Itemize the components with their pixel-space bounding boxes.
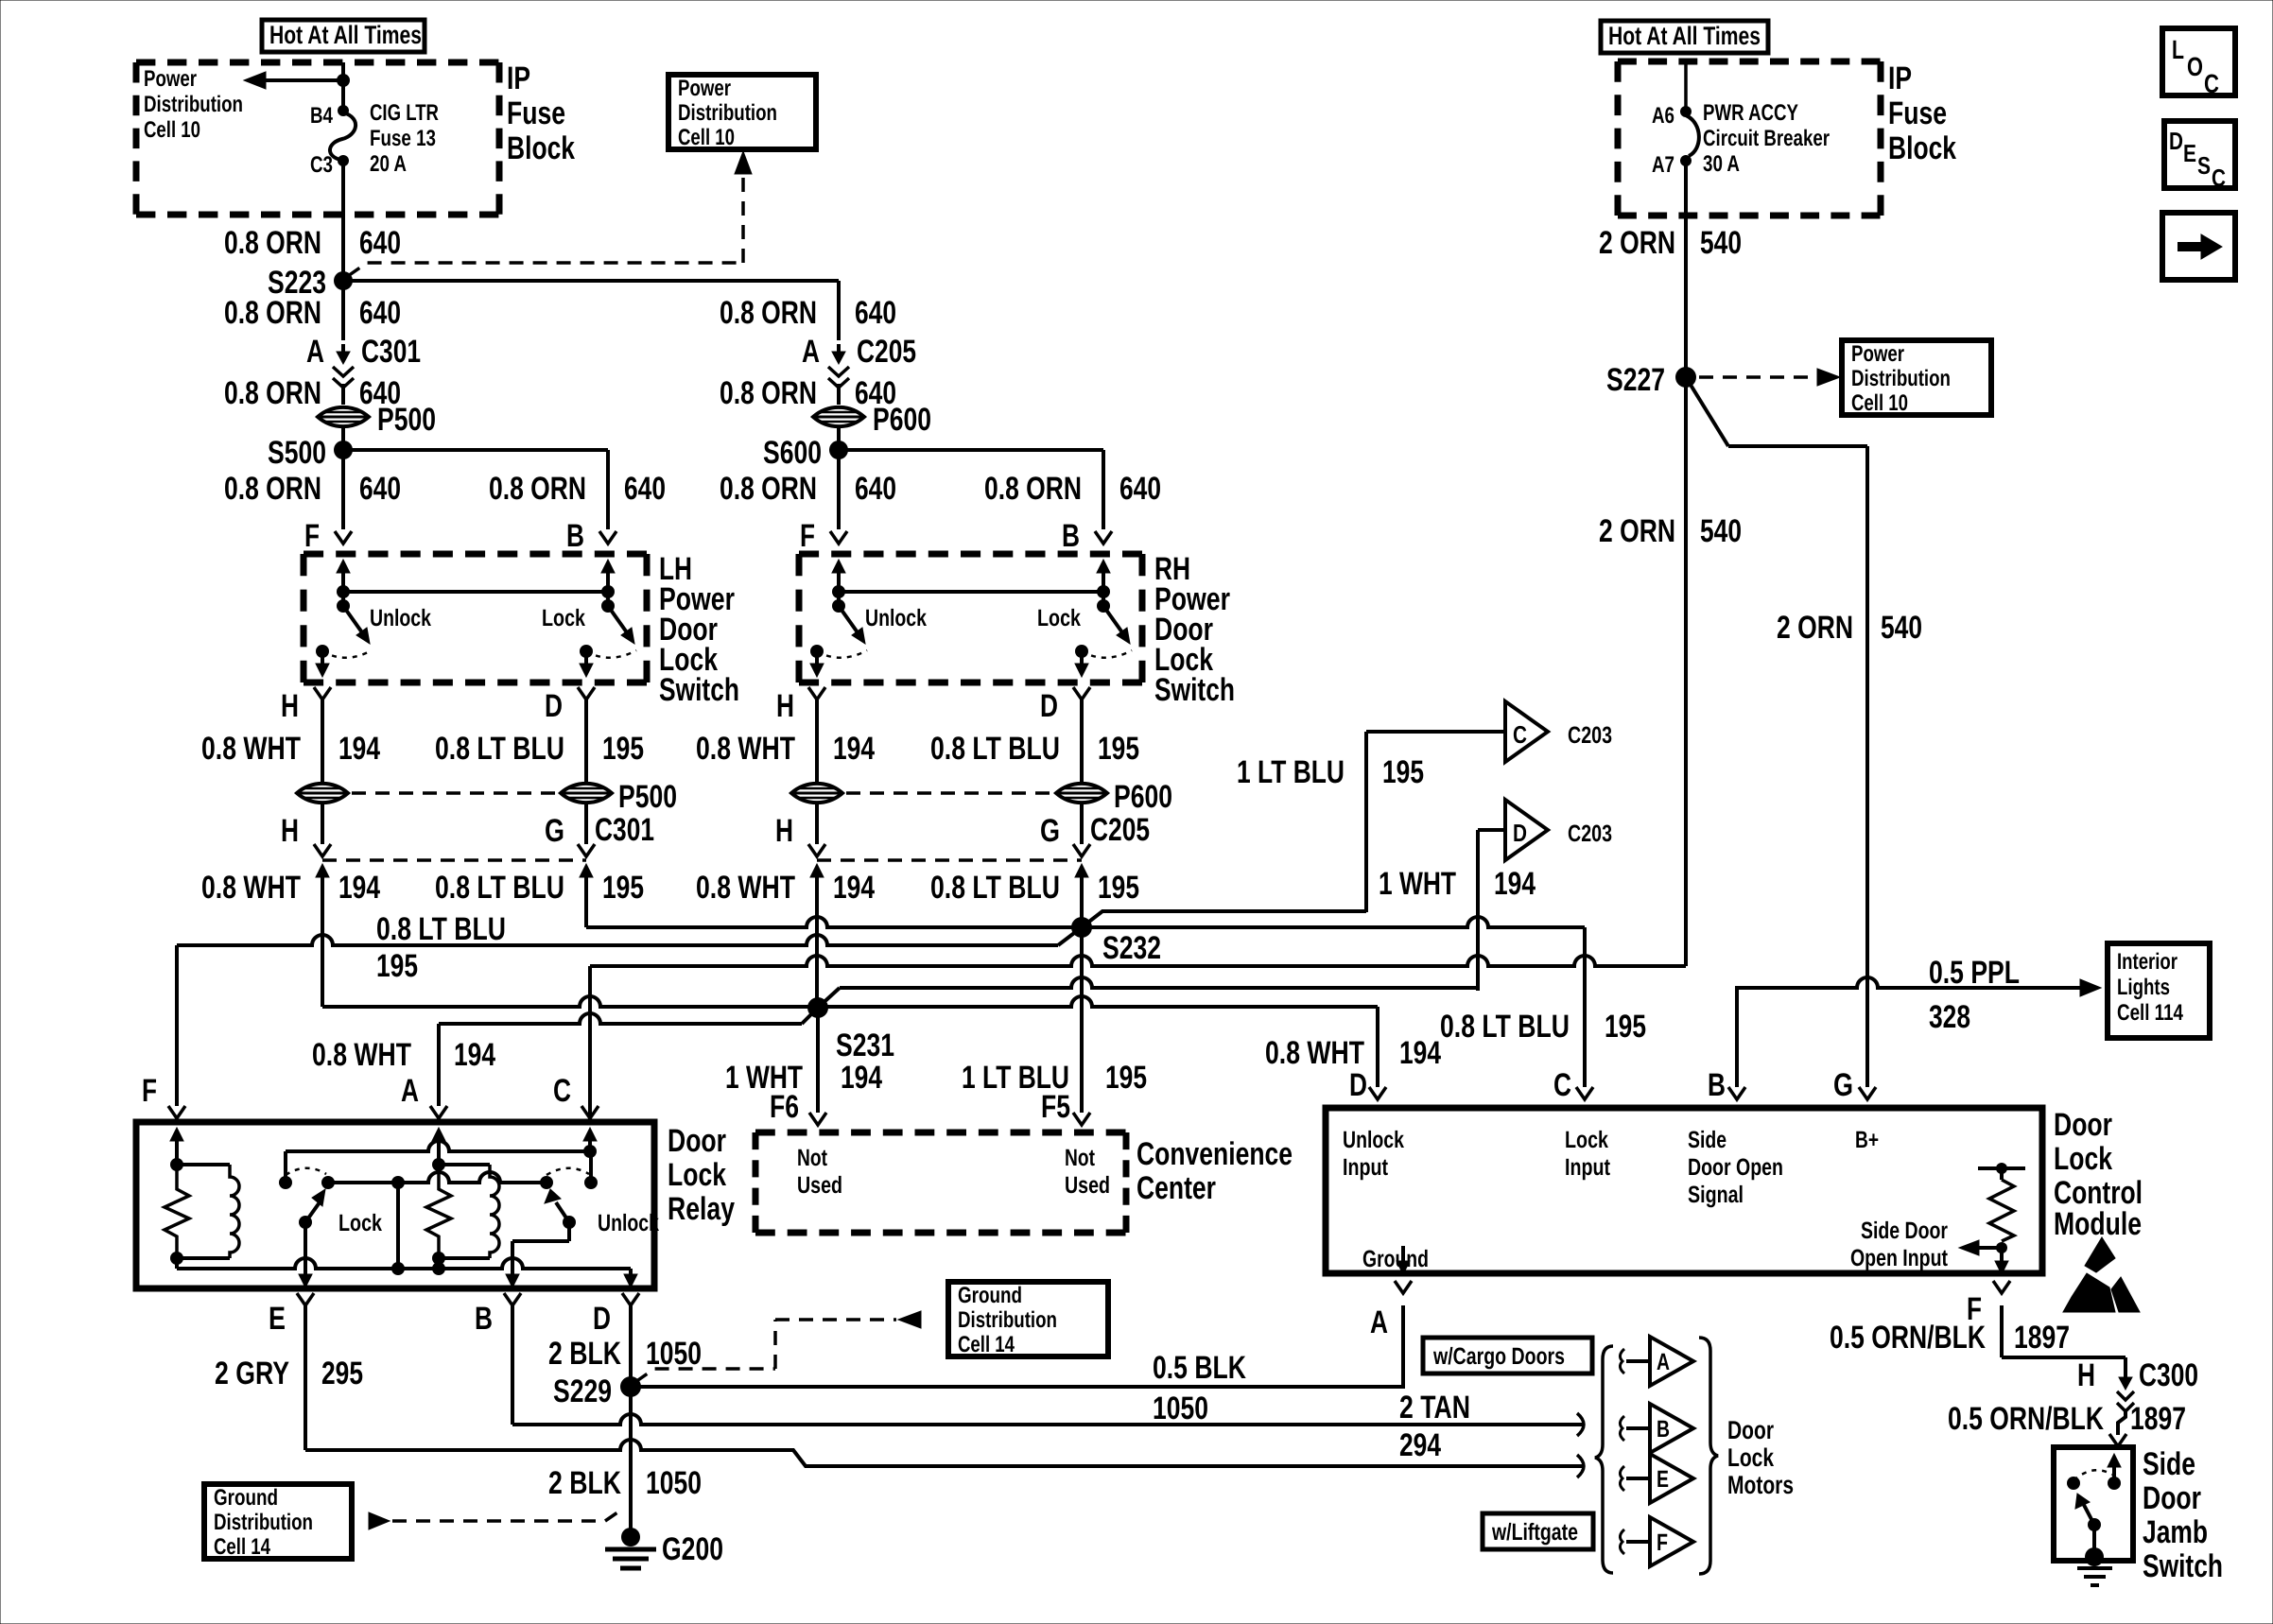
wire: C205 to P600 (837, 384, 841, 405)
wire: S232 down to F5 (1080, 927, 1084, 1113)
wire: S223 branch to C205 (horizontal) (343, 279, 839, 283)
svg-text:Door: Door (1727, 1416, 1774, 1444)
wire: 1 WHT to C203 D (1478, 828, 1505, 832)
LH lock switch blade (608, 606, 629, 635)
svg-text:194: 194 (454, 1037, 495, 1073)
svg-text:Relay: Relay (668, 1191, 735, 1227)
relay lock pivot (299, 1216, 312, 1229)
svg-text:Door: Door (668, 1123, 726, 1159)
svg-text:Lock: Lock (1565, 1127, 1608, 1153)
svg-text:540: 540 (1700, 513, 1742, 549)
svg-text:194: 194 (833, 731, 875, 767)
svg-text:640: 640 (855, 295, 896, 331)
wire: S223 down to C301 (341, 281, 345, 340)
wire: LT BLU 195 bus LH D to S232 to module C (586, 917, 1585, 927)
svg-text:Lock: Lock (668, 1157, 726, 1193)
relay E pin wire from lock pivot (304, 1222, 307, 1278)
pin D chevron out of LH switch (578, 687, 595, 700)
RH switch: B pin internal arrow (1097, 560, 1110, 573)
connector P500 pass-through (LH D wire) (561, 784, 612, 803)
svg-text:Module: Module (2054, 1206, 2142, 1242)
relay resistor 1 (165, 1165, 189, 1258)
svg-text:540: 540 (1881, 610, 1922, 646)
Side Door Jamb Switch box (2054, 1447, 2133, 1561)
door lock motor A lead curl (1620, 1349, 1624, 1373)
wire end curl (294) (1577, 1455, 1584, 1477)
svg-text:Cell 114: Cell 114 (2117, 1000, 2184, 1026)
svg-text:C203: C203 (1568, 722, 1612, 749)
svg-text:194: 194 (833, 870, 875, 906)
wire: RH H down to S231 (815, 885, 819, 1008)
svg-text:Not: Not (1065, 1145, 1096, 1171)
svg-text:Lock: Lock (1037, 605, 1081, 631)
relay F leg upper (175, 1151, 179, 1165)
svg-text:1 WHT: 1 WHT (1379, 866, 1456, 902)
svg-text:Interior: Interior (2117, 949, 2178, 975)
svg-text:Hot At All Times: Hot At All Times (269, 21, 422, 49)
buffer C203 pin C triangle (1505, 701, 1548, 762)
wire: relay B pin down and right to motors (511, 1305, 514, 1425)
connector P600 pass-through (RH H wire) (791, 784, 842, 803)
svg-text:195: 195 (602, 731, 644, 767)
svg-text:A: A (802, 334, 820, 370)
arrow from Ground Distribution (left) (369, 1512, 390, 1529)
LH switch bus node B (601, 585, 615, 598)
legend box DESC (2164, 121, 2235, 188)
pin B4 of fuse (338, 105, 349, 116)
svg-text:B: B (1708, 1067, 1726, 1103)
wire: C301 to P500 (341, 384, 345, 405)
wire: RH H below P600 (815, 803, 819, 844)
wire: LH D to bus corner (584, 885, 588, 927)
svg-text:Power: Power (144, 66, 197, 92)
relay coil 1 (177, 1163, 230, 1166)
relay lock switch dashed arc (286, 1168, 326, 1175)
pin D chevron (module) (1369, 1087, 1386, 1099)
svg-text:2 ORN: 2 ORN (1777, 610, 1853, 646)
node: fuse feed junction (337, 74, 350, 87)
door lock motor A triangle (1650, 1337, 1693, 1386)
svg-text:1897: 1897 (2130, 1401, 2186, 1437)
svg-text:F: F (1657, 1529, 1668, 1556)
pin C3 of fuse (338, 155, 349, 166)
svg-text:F: F (142, 1073, 157, 1109)
svg-text:Switch: Switch (659, 672, 739, 708)
svg-text:F5: F5 (1041, 1089, 1070, 1125)
relay internal ground bus (175, 1258, 179, 1269)
wire: LH D pin down to P500 (584, 700, 588, 783)
wire: WHT 194 bus LH H to S231 to module D (322, 996, 1378, 1007)
relay resistor 2 (426, 1165, 451, 1258)
svg-text:0.8 LT BLU: 0.8 LT BLU (930, 731, 1060, 767)
svg-text:Power: Power (1851, 341, 1904, 367)
svg-text:Motors: Motors (1727, 1471, 1794, 1499)
RH lock switch blade (1103, 606, 1124, 635)
svg-text:S227: S227 (1606, 362, 1665, 398)
door lock motor F triangle (1650, 1517, 1693, 1566)
svg-text:2 ORN: 2 ORN (1599, 513, 1675, 549)
RH lock contact arrow down (1080, 651, 1084, 664)
relay unlock left contact (540, 1176, 553, 1189)
svg-text:G: G (1040, 813, 1060, 849)
svg-text:0.8 ORN: 0.8 ORN (224, 225, 321, 261)
svg-text:F6: F6 (770, 1089, 799, 1125)
svg-text:1050: 1050 (1153, 1391, 1208, 1426)
node S229 (620, 1376, 641, 1397)
svg-text:Ground: Ground (958, 1283, 1022, 1308)
svg-text:0.8 LT BLU: 0.8 LT BLU (930, 870, 1060, 906)
svg-text:1 LT BLU: 1 LT BLU (1237, 754, 1345, 790)
LH unlock switch blade (343, 606, 364, 635)
wire: P500 to S500 (341, 428, 345, 529)
connector P500 pass-through (power feed) (318, 407, 369, 426)
svg-text:Open Input: Open Input (1850, 1245, 1949, 1271)
RH lock switch contact (1075, 645, 1088, 658)
connector C300 in-line symbol (2119, 1377, 2132, 1390)
module internal resistor (side door open input) (1978, 1166, 2025, 1170)
svg-text:Distribution: Distribution (1851, 366, 1951, 391)
svg-text:Unlock: Unlock (865, 605, 927, 631)
svg-text:F: F (800, 518, 815, 554)
door lock motor E lead (1626, 1477, 1650, 1480)
pin D chevron out of RH switch (1073, 687, 1090, 700)
svg-text:A: A (1657, 1349, 1670, 1375)
relay coil1 top node (170, 1158, 183, 1171)
wire: module C riser down (1583, 927, 1587, 1087)
RH switch bus node B (1097, 585, 1110, 598)
wire: 2 ORN branch down to module G pin (1865, 446, 1869, 1087)
wire: RH D below P600 (1080, 803, 1084, 844)
dashed connector tie P600 (846, 791, 1052, 795)
svg-text:Lock: Lock (338, 1210, 382, 1236)
dashed wire: S227 to Power Distribution Cell 10 (1699, 375, 1815, 379)
svg-text:G200: G200 (662, 1531, 723, 1567)
svg-text:C301: C301 (361, 334, 421, 370)
pin G chevron (module) (1859, 1087, 1876, 1099)
relay A internal arrow (432, 1128, 445, 1141)
Convenience Center dashed box (755, 1130, 1126, 1136)
pin C chevron into relay (581, 1106, 599, 1118)
svg-text:P600: P600 (873, 402, 931, 438)
arrow into Power Distribution box (right) (1817, 369, 1840, 386)
relay coil 2 (439, 1163, 490, 1166)
wire: module B riser and 0.5 PPL to interior lights (1737, 977, 2085, 1087)
dashed wire: S229 to Ground Distribution Cell 14 (right) (635, 1369, 775, 1382)
LH lock switch contact (580, 645, 593, 658)
svg-text:P500: P500 (377, 402, 436, 438)
svg-text:1897: 1897 (2014, 1320, 2070, 1356)
svg-text:C300: C300 (2139, 1357, 2198, 1393)
svg-text:Unlock: Unlock (598, 1210, 659, 1236)
svg-text:IP: IP (507, 60, 530, 96)
svg-text:S: S (2197, 151, 2211, 180)
svg-text:S600: S600 (763, 435, 822, 471)
connector C301 chevron H (314, 844, 331, 856)
RH unlock switch contact (810, 645, 824, 658)
wire end curl (2 TAN) (1577, 1413, 1584, 1436)
solid box: Power Distribution Cell 10 (right) (1842, 340, 1991, 415)
RH Power Door Lock Switch dashed box (799, 551, 1142, 558)
svg-text:0.8 ORN: 0.8 ORN (720, 471, 817, 507)
svg-text:Switch: Switch (1154, 672, 1235, 708)
relay B pin dogleg from unlock pivot (567, 1222, 571, 1241)
LH unlock contact arrow down (321, 651, 324, 664)
svg-text:Switch: Switch (2143, 1548, 2223, 1584)
legend box LOC (2162, 28, 2235, 95)
solid box: Interior Lights Cell 114 (2108, 943, 2210, 1038)
svg-text:Fuse: Fuse (1888, 95, 1947, 131)
wire: 2 ORN relay feed horizontal (590, 956, 1686, 966)
svg-text:0.8 ORN: 0.8 ORN (489, 471, 586, 507)
svg-text:30 A: 30 A (1703, 151, 1740, 177)
svg-text:0.5 ORN/BLK: 0.5 ORN/BLK (1830, 1320, 1986, 1356)
svg-text:640: 640 (624, 471, 666, 507)
dashed wire: Ground Distribution to G200 wire (392, 1519, 605, 1523)
svg-text:C: C (2212, 164, 2226, 192)
Door Lock Relay box (136, 1122, 654, 1288)
relay coil2 bottom node (432, 1252, 445, 1265)
Door Lock Control Module box (1326, 1108, 2042, 1273)
svg-text:0.8 WHT: 0.8 WHT (1265, 1035, 1364, 1071)
svg-text:195: 195 (1382, 754, 1424, 790)
pin F chevron below module (1993, 1281, 2010, 1293)
RH unlock switch dashed arc (817, 650, 867, 658)
door lock motor B lead curl (1620, 1416, 1624, 1441)
wire: S600 branch to RH switch B pin (839, 448, 1103, 452)
pin F chevron into relay (168, 1106, 185, 1118)
svg-text:640: 640 (1119, 471, 1161, 507)
svg-text:CIG LTR: CIG LTR (370, 100, 439, 126)
LH unlock switch contact (316, 645, 329, 658)
svg-text:Used: Used (1065, 1172, 1110, 1199)
svg-text:S231: S231 (836, 1028, 894, 1063)
relay lock left contact (279, 1176, 292, 1189)
svg-text:D: D (1513, 819, 1527, 847)
connector P600 pass-through (power feed) (813, 407, 864, 426)
svg-text:C205: C205 (1090, 812, 1150, 848)
relay unlock switch dashed arc (547, 1168, 589, 1175)
svg-text:B: B (1657, 1416, 1670, 1443)
svg-text:G: G (1833, 1067, 1853, 1103)
pin B chevron into RH switch (1095, 531, 1112, 544)
svg-text:328: 328 (1929, 999, 1970, 1035)
svg-text:0.8 ORN: 0.8 ORN (224, 471, 321, 507)
svg-text:2 TAN: 2 TAN (1399, 1390, 1470, 1425)
svg-text:194: 194 (1399, 1035, 1441, 1071)
svg-text:Side: Side (1688, 1127, 1726, 1153)
svg-text:H: H (776, 688, 794, 724)
C301 G male arrow (580, 864, 593, 877)
svg-text:Hot At All Times: Hot At All Times (1608, 22, 1761, 50)
relay unlock riser (589, 1151, 593, 1183)
pin B chevron below relay (504, 1293, 521, 1305)
svg-text:w/Cargo Doors: w/Cargo Doors (1432, 1343, 1565, 1370)
C205 H male arrow (810, 864, 824, 877)
wire: LT BLU 195 bus S232 to C203 (upper) (1082, 911, 1366, 927)
buffer C203 pin D triangle (1505, 800, 1548, 860)
jamb switch ground dot (2085, 1547, 2104, 1566)
pin B chevron into LH switch (599, 531, 616, 544)
door lock motor F lead curl (1620, 1529, 1624, 1554)
LH switch internal bus F-B (343, 590, 608, 594)
wire: C300 to jamb switch (2118, 1410, 2126, 1435)
RH switch bus node F (832, 585, 845, 598)
svg-text:0.8 ORN: 0.8 ORN (984, 471, 1082, 507)
wire: relay C power riser down (588, 966, 592, 1122)
jamb switch ground symbol (2077, 1566, 2112, 1570)
svg-text:A: A (1370, 1304, 1388, 1340)
svg-text:Distribution: Distribution (678, 100, 777, 126)
svg-text:C: C (1553, 1067, 1571, 1103)
svg-text:1050: 1050 (646, 1465, 702, 1501)
relay lock riser top node (391, 1176, 405, 1189)
svg-text:640: 640 (359, 225, 401, 261)
wire: relay D S229 down to G200 (629, 1387, 633, 1531)
legend box arrow (2162, 213, 2235, 280)
LH lock switch pivot (601, 599, 615, 613)
svg-text:S500: S500 (268, 435, 326, 471)
wire: relay F riser down (175, 945, 179, 1106)
relay unlock contact link (398, 1172, 547, 1183)
svg-text:Distribution: Distribution (214, 1510, 313, 1535)
door lock motor B lead (1626, 1426, 1650, 1430)
svg-text:0.8 LT BLU: 0.8 LT BLU (376, 911, 506, 947)
svg-text:194: 194 (841, 1060, 882, 1096)
svg-text:D: D (2169, 127, 2183, 155)
C301 H male arrow (316, 864, 329, 877)
connector C205 chevron H (808, 844, 825, 856)
node S223 (334, 271, 353, 290)
ground G200 symbol (621, 1528, 640, 1546)
svg-text:D: D (545, 688, 563, 724)
svg-text:P600: P600 (1114, 779, 1172, 815)
svg-text:Door: Door (2054, 1107, 2112, 1143)
svg-text:2 GRY: 2 GRY (215, 1356, 289, 1391)
pin H chevron out of RH switch (808, 687, 825, 700)
svg-text:C205: C205 (857, 334, 916, 370)
svg-text:Input: Input (1565, 1154, 1611, 1181)
jamb switch pivot (2088, 1518, 2101, 1531)
RH unlock switch blade (839, 606, 859, 635)
svg-text:A: A (306, 334, 324, 370)
connector P500 pass-through (LH H wire) (297, 784, 348, 803)
svg-text:PWR ACCY: PWR ACCY (1703, 100, 1798, 126)
relay top bus (power) (286, 1141, 590, 1151)
pin F5 chevron (1073, 1113, 1090, 1125)
jamb switch left contact (2067, 1477, 2080, 1490)
svg-text:194: 194 (338, 731, 380, 767)
svg-text:D: D (1040, 688, 1058, 724)
RH lock switch pivot (1097, 599, 1110, 613)
svg-text:Cell 10: Cell 10 (678, 125, 735, 150)
jamb switch ground lead (2092, 1525, 2096, 1555)
relay lock riser to ground bus (396, 1183, 400, 1269)
svg-text:B: B (475, 1301, 493, 1337)
RH switch internal bus F-B (839, 590, 1103, 594)
svg-text:w/Liftgate: w/Liftgate (1491, 1519, 1578, 1546)
jamb switch chevron (2109, 1434, 2126, 1446)
arrow to Interior Lights (2080, 979, 2101, 996)
pin A7 of breaker (1680, 155, 1692, 166)
svg-text:195: 195 (602, 870, 644, 906)
svg-text:195: 195 (376, 948, 418, 984)
module resistor top node (1996, 1163, 2007, 1174)
svg-text:Center: Center (1136, 1170, 1216, 1206)
solid box: Ground Distribution Cell 14 (right) (948, 1282, 1108, 1356)
relay unlock blade (556, 1202, 569, 1222)
svg-text:Unlock: Unlock (1343, 1127, 1404, 1153)
pin B chevron (module) (1728, 1087, 1745, 1099)
relay coil2 top node (432, 1158, 445, 1171)
svg-text:0.8 LT BLU: 0.8 LT BLU (1440, 1009, 1570, 1045)
wire: RH D pin down to P600 (1080, 700, 1084, 783)
svg-text:194: 194 (1494, 866, 1536, 902)
svg-text:0.5 ORN/BLK: 0.5 ORN/BLK (1948, 1401, 2104, 1437)
svg-text:C: C (2204, 69, 2219, 98)
svg-text:2 ORN: 2 ORN (1599, 225, 1675, 261)
module A pin internal arrow down (1401, 1246, 1405, 1263)
wire: relay D pin down to S229 (629, 1305, 633, 1387)
svg-text:F: F (304, 518, 320, 554)
svg-text:L: L (2172, 35, 2184, 64)
svg-text:0.8 WHT: 0.8 WHT (312, 1037, 411, 1073)
relay coil1 bottom node (170, 1252, 183, 1265)
LH unlock switch dashed arc (322, 650, 372, 658)
RH lock switch dashed arc (1082, 650, 1132, 658)
RH unlock switch pivot (832, 599, 845, 613)
svg-text:Cell 10: Cell 10 (1851, 390, 1908, 416)
wire: P600 to S600 (837, 428, 841, 529)
module resistor zigzag (1989, 1180, 2014, 1241)
svg-text:Lock: Lock (542, 605, 585, 631)
RH unlock contact arrow down (815, 651, 819, 664)
svg-text:195: 195 (1105, 1060, 1147, 1096)
wire: module F to C300 (0.5 ORN/BLK 1897) (2000, 1305, 2004, 1357)
svg-text:D: D (1349, 1067, 1367, 1103)
svg-text:Lock: Lock (1727, 1443, 1775, 1472)
svg-text:P500: P500 (618, 779, 677, 815)
relay top bus node C (583, 1145, 597, 1158)
relay A leg upper (437, 1151, 441, 1165)
svg-text:Power: Power (678, 76, 731, 101)
svg-text:Side Door: Side Door (1861, 1218, 1948, 1244)
svg-text:0.8 ORN: 0.8 ORN (720, 375, 817, 411)
svg-text:C: C (1513, 720, 1527, 749)
pin F chevron into LH switch (335, 531, 352, 544)
relay lock contact riser (284, 1151, 287, 1183)
motors right brace (1699, 1338, 1718, 1574)
svg-text:E: E (269, 1301, 286, 1337)
svg-text:Lock: Lock (2054, 1141, 2112, 1177)
pin F chevron into RH switch (830, 531, 847, 544)
pin E chevron below relay (297, 1293, 314, 1305)
LH Power Door Lock Switch dashed box (304, 551, 647, 558)
svg-text:Circuit Breaker: Circuit Breaker (1703, 126, 1830, 151)
svg-text:Block: Block (1888, 130, 1956, 166)
svg-text:H: H (775, 813, 793, 849)
svg-text:H: H (281, 813, 299, 849)
svg-text:C: C (553, 1073, 571, 1109)
pin A6 of breaker (1680, 106, 1692, 117)
wire: S227 dogleg to G-pin branch (1686, 377, 1728, 446)
connector C205 in-line symbol (832, 352, 845, 364)
pin C chevron (module) (1576, 1087, 1593, 1099)
svg-text:B: B (566, 518, 584, 554)
svg-text:Ground: Ground (214, 1485, 278, 1511)
svg-text:H: H (281, 688, 299, 724)
node S232 (1071, 917, 1092, 938)
solid box: Ground Distribution Cell 14 (left) (204, 1484, 352, 1559)
